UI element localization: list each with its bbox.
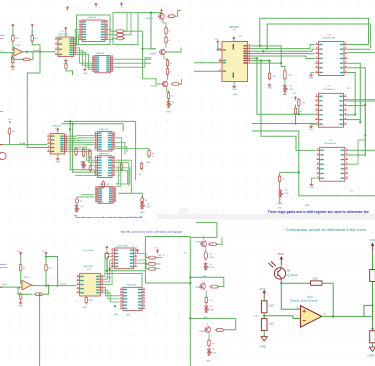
- capacitor C7: [75, 197, 78, 205]
- wire: [372, 251, 374, 270]
- svg-text:1k: 1k: [119, 175, 121, 177]
- svg-text:1M: 1M: [288, 75, 291, 77]
- wire: [31, 28, 33, 35]
- wire Q4 net: [251, 56, 315, 59]
- logic IC6 SN74HC32N: [319, 42, 345, 76]
- power VCC C4: [106, 246, 109, 250]
- resistor R8: [167, 15, 176, 18]
- LED D2: [283, 85, 288, 93]
- svg-text:74HC594: 74HC594: [229, 27, 239, 29]
- wire: [372, 343, 374, 347]
- svg-text:2N3904: 2N3904: [196, 242, 203, 244]
- wire stub to shift register DSB: [194, 62, 219, 64]
- svg-text:Opamp_Dual_Generic: Opamp_Dual_Generic: [290, 298, 318, 302]
- wire led res: [137, 254, 148, 258]
- resistor R26b: [140, 162, 142, 171]
- wire feed mid: [143, 48, 157, 50]
- wire output: [322, 315, 373, 317]
- svg-text:GND: GND: [267, 88, 272, 90]
- wire: [85, 296, 87, 298]
- svg-text:transistor: transistor: [0, 266, 8, 269]
- wire 1k column: [280, 171, 299, 173]
- resistor R43: [370, 331, 375, 343]
- resistor R23: [102, 180, 104, 189]
- junction: [150, 12, 152, 14]
- wire: [167, 74, 169, 80]
- wire box2 to column: [123, 31, 161, 84]
- junction: [189, 282, 191, 284]
- capacitor C6: [141, 196, 144, 204]
- LED D6: [205, 305, 210, 313]
- wire: [45, 256, 47, 263]
- junction: [145, 263, 147, 265]
- svg-text:in: in: [1, 50, 3, 52]
- svg-text:2N3904: 2N3904: [199, 331, 206, 333]
- resistor R30: [85, 296, 87, 305]
- wire feedback: [18, 288, 33, 294]
- svg-text:GND: GND: [305, 205, 310, 207]
- junction: [259, 45, 261, 47]
- svg-text:Three shift registers are used: Three shift registers are used to count …: [75, 216, 143, 219]
- wire: [163, 20, 166, 28]
- wire feedback loop: [12, 54, 22, 60]
- op-amp U2A: [22, 280, 32, 290]
- resistor R27 2k2: [45, 263, 47, 272]
- IC15 74AHC595: [123, 287, 142, 310]
- power VCC box3: [120, 2, 123, 6]
- svg-text:22k: 22k: [313, 277, 318, 281]
- svg-text:GND: GND: [278, 208, 283, 210]
- resistor R3 feedback: [21, 58, 31, 61]
- svg-text:74HC14N: 74HC14N: [58, 34, 68, 36]
- svg-text:LED: LED: [213, 352, 217, 354]
- junction red: [108, 267, 111, 270]
- long wire to lower section: [27, 52, 47, 148]
- svg-text:VCC: VCC: [238, 36, 243, 38]
- resistor R32 led: [147, 263, 157, 266]
- svg-text:IC1A: IC1A: [15, 44, 20, 47]
- resistor R38: [208, 338, 210, 347]
- wire: [298, 105, 300, 114]
- svg-text:1k: 1k: [209, 254, 211, 256]
- svg-text:74AHC595: 74AHC595: [126, 284, 137, 287]
- resistor R39 22k: [311, 281, 322, 285]
- kicad grid dots: [220, 221, 375, 363]
- junction: [45, 285, 47, 287]
- wire: [168, 98, 170, 101]
- wire: [66, 70, 73, 76]
- wire to R24: [116, 148, 150, 150]
- junction: [47, 285, 49, 287]
- svg-text:74HC595: 74HC595: [52, 125, 62, 127]
- svg-text:LED_R: LED_R: [158, 255, 165, 257]
- svg-text:GND: GND: [203, 276, 208, 278]
- wire: [263, 331, 265, 337]
- wire: [32, 41, 40, 52]
- resistor R7: [115, 37, 125, 40]
- IC4 logic bottom: [95, 56, 110, 73]
- junction: [266, 48, 268, 50]
- wire: [20, 256, 22, 263]
- svg-text:74AHC595: 74AHC595: [99, 128, 110, 131]
- power VCC IC1: [64, 27, 67, 31]
- IC3 logic top: [82, 20, 105, 41]
- wire frame A: [64, 121, 136, 180]
- wire bus to IC6: [252, 123, 315, 125]
- wire: [9, 135, 11, 145]
- capacitor C2: [89, 164, 92, 172]
- resistor R17 47k: [298, 98, 300, 107]
- power VCC box2: [95, 3, 98, 7]
- wire: [203, 237, 205, 240]
- wire: [205, 248, 207, 251]
- svg-text:S_out: S_out: [33, 49, 39, 52]
- svg-text:74AHC595: 74AHC595: [99, 152, 110, 155]
- IC10 74AHC595: [98, 132, 113, 152]
- svg-text:100n: 100n: [209, 257, 213, 259]
- transistor Q7: [200, 240, 206, 248]
- svg-text:GND: GND: [18, 305, 23, 307]
- wire frame ends: [117, 164, 119, 183]
- logic IC7 SN74HC05: [319, 93, 344, 127]
- svg-text:SN74HC08: SN74HC08: [325, 143, 337, 145]
- wire: [281, 63, 285, 70]
- wire 22k to right: [322, 283, 333, 316]
- resistor R4: [12, 56, 14, 65]
- wire: [372, 282, 374, 331]
- wire: [295, 114, 297, 124]
- wire IC7 nets: [347, 100, 375, 102]
- wire: [106, 260, 108, 271]
- wire main input: [0, 144, 47, 146]
- transistor Q3: [158, 13, 164, 21]
- svg-text:1k: 1k: [152, 156, 154, 158]
- shift register IC5 74HC594: [222, 42, 248, 82]
- svg-text:LED: LED: [285, 193, 289, 195]
- svg-text:T9: T9: [206, 324, 208, 326]
- wire: [263, 313, 265, 319]
- resistor R6: [115, 33, 125, 36]
- wire: [205, 290, 207, 297]
- transistor Q8: [199, 282, 205, 290]
- svg-text:Q?: Q?: [287, 269, 291, 273]
- wire: [279, 172, 281, 176]
- wire to buzzer col: [130, 184, 132, 193]
- svg-text:74AHC595: 74AHC595: [100, 183, 111, 186]
- svg-text:VCC: VCC: [347, 88, 352, 90]
- junction pullup: [371, 304, 373, 306]
- ground IC6: [309, 73, 313, 76]
- wire output: [32, 285, 77, 287]
- svg-text:VCC: VCC: [350, 191, 355, 193]
- ground D2: [283, 92, 287, 94]
- wire collector: [280, 265, 282, 268]
- junction: [217, 49, 219, 51]
- resistor R34: [208, 243, 218, 246]
- wire IC7 right exits: [344, 99, 375, 101]
- wire Q6 branch: [251, 60, 270, 62]
- svg-text:LED: LED: [289, 89, 293, 91]
- wire hook2: [178, 79, 181, 84]
- op-amp U1A: [14, 48, 23, 57]
- ground pullup: [369, 347, 375, 351]
- IC13 74HC14 yellow: [80, 273, 101, 296]
- wire: [76, 196, 78, 199]
- resistor R1: [12, 34, 14, 43]
- junction: [298, 171, 300, 173]
- svg-text:GND: GND: [233, 94, 238, 96]
- ground IC1: [64, 59, 68, 62]
- svg-text:1k: 1k: [145, 200, 147, 202]
- junction: [294, 122, 296, 124]
- wire D4 branch: [77, 196, 94, 198]
- transistor Q9: [204, 326, 210, 334]
- op-amp U1A kicad: [300, 306, 321, 328]
- wire box around IC3: [77, 15, 111, 45]
- wire bus IC1 to IC3: [75, 29, 79, 39]
- LED D1: [167, 100, 172, 108]
- junction: [189, 317, 191, 319]
- svg-text:74LVC1G08: 74LVC1G08: [117, 245, 129, 247]
- wire out to pullup: [364, 305, 373, 316]
- junction: [141, 48, 143, 50]
- wire frame E: [189, 237, 191, 366]
- wire R35 up: [218, 277, 224, 286]
- wire Q3 net: [251, 53, 315, 55]
- svg-text:74HC14N: 74HC14N: [83, 266, 93, 268]
- wire: [166, 88, 168, 93]
- resistor R14 47k: [268, 72, 270, 81]
- svg-text:2N3904: 2N3904: [195, 287, 202, 289]
- svg-text:74HC08: 74HC08: [96, 53, 105, 55]
- svg-text:IC1B: IC1B: [24, 277, 29, 279]
- wire: [165, 48, 181, 53]
- junction: [69, 120, 71, 122]
- resistor R9b: [165, 36, 167, 45]
- svg-text:GND: GND: [140, 212, 145, 214]
- svg-text:SN74HC05: SN74HC05: [324, 89, 336, 91]
- speaker SP1: [0, 153, 6, 160]
- svg-text:Comparator circuit to determin: Comparator circuit to determine if the c…: [286, 227, 367, 232]
- junction: [72, 123, 74, 125]
- LED D5: [204, 263, 209, 271]
- wire box2 inner: [123, 13, 127, 32]
- svg-text:GND: GND: [309, 78, 314, 80]
- junction: [280, 62, 282, 64]
- wire Q2 net: [251, 49, 315, 51]
- svg-text:1k9: 1k9: [269, 304, 274, 308]
- power VCC box1: [66, 6, 69, 10]
- resistor R35: [209, 285, 219, 288]
- resistor R13: [167, 91, 169, 100]
- wire: [208, 334, 210, 340]
- svg-text:SN74HC32N: SN74HC32N: [323, 38, 336, 40]
- wire input: [0, 52, 14, 54]
- junction photo: [280, 282, 282, 284]
- wire long pair B: [105, 274, 142, 287]
- resistor R37: [215, 329, 225, 332]
- wire: [165, 43, 167, 48]
- wire vcc branch: [46, 257, 58, 286]
- ground R29: [19, 301, 23, 304]
- IC11 74AHC595: [98, 156, 113, 178]
- svg-text:GND: GND: [232, 89, 237, 91]
- wire hook: [175, 10, 181, 16]
- svg-text:amp: amp: [0, 38, 4, 40]
- svg-text:GND: GND: [107, 277, 112, 279]
- ground R14: [268, 83, 272, 86]
- svg-text:D1: D1: [172, 102, 174, 104]
- power VCC IC9: [56, 128, 59, 132]
- wire: [21, 270, 22, 283]
- svg-text:GND: GND: [206, 361, 211, 363]
- svg-text:1.5V: 1.5V: [254, 314, 260, 318]
- window edge gray band: [157, 214, 375, 220]
- wire IC4 to T4 box: [114, 58, 152, 60]
- wire top rail: [138, 13, 161, 15]
- resistor R15 1M: [284, 69, 286, 81]
- wire Q1 riser: [267, 24, 370, 49]
- phototransistor Q10: [274, 268, 285, 279]
- svg-text:S_out: S_out: [20, 142, 26, 145]
- resistor R33 led: [147, 267, 157, 270]
- svg-text:GND: GND: [309, 129, 314, 131]
- resistor R40 1k9: [261, 301, 267, 313]
- svg-text:GND: GND: [83, 307, 88, 309]
- wire: [164, 56, 168, 60]
- svg-text:audio in: audio in: [0, 264, 7, 266]
- transistor Q4: [159, 48, 165, 56]
- wire bus IC1 to IC4: [77, 48, 93, 63]
- svg-text:Three logic gates and a shift: Three logic gates and a shift register a…: [268, 210, 369, 214]
- wire long pair A: [105, 270, 145, 272]
- svg-text:1k: 1k: [139, 174, 141, 176]
- power VCC IC9b: [69, 128, 72, 132]
- LED D3: [279, 190, 284, 198]
- resistor R26 1k: [20, 263, 22, 272]
- svg-text:VCC: VCC: [278, 252, 285, 256]
- junction: [256, 57, 258, 59]
- junction: [189, 276, 191, 278]
- wire Q5 net down: [251, 58, 315, 114]
- resistor R21: [89, 149, 91, 159]
- svg-text:1k9: 1k9: [269, 322, 274, 326]
- LED D7: [207, 348, 212, 356]
- resistor R20: [82, 148, 84, 158]
- wire bus2 to IC7: [252, 131, 375, 196]
- wire bus IC13 to IC15: [104, 287, 120, 295]
- wire: [165, 33, 167, 37]
- wire: [295, 104, 297, 108]
- wire: [12, 28, 14, 35]
- resistor R31 led: [147, 256, 157, 259]
- svg-text:VCC: VCC: [292, 93, 297, 95]
- wire bus IC9 to IC11: [68, 147, 94, 160]
- wire Q7 net: [251, 62, 281, 64]
- resistor R36: [205, 295, 207, 304]
- junction: [114, 305, 116, 307]
- wire frame B: [61, 124, 123, 132]
- wire input S_in: [0, 286, 22, 288]
- resistor R11: [166, 67, 168, 76]
- svg-text:LED: LED: [210, 309, 214, 311]
- wire: [279, 182, 281, 191]
- junction divider: [263, 315, 265, 317]
- wire: [167, 66, 169, 69]
- svg-text:VCC: VCC: [215, 39, 220, 41]
- wire: [42, 286, 48, 295]
- resistor R42 pullup: [370, 270, 375, 282]
- svg-text:GND: GND: [83, 73, 88, 75]
- junction: [364, 134, 366, 136]
- wire bus IC13 to IC14: [104, 254, 111, 277]
- svg-text:GND: GND: [10, 69, 15, 71]
- ground IC9: [56, 157, 60, 160]
- svg-text:GND: GND: [114, 314, 119, 316]
- junction: [371, 328, 373, 330]
- junction: [268, 60, 270, 62]
- junction: [364, 104, 366, 106]
- wire: [263, 298, 265, 301]
- resistor R10: [166, 59, 168, 68]
- svg-text:How LEDs connected to an inver: How LEDs connected to an inverter, a shi…: [121, 231, 182, 234]
- wire: [30, 52, 33, 60]
- LED D8: [140, 201, 145, 209]
- wire frame D: [73, 124, 97, 172]
- svg-text:2N3904: 2N3904: [151, 85, 158, 87]
- capacitor C1: [65, 62, 68, 70]
- junction: [262, 50, 264, 52]
- svg-text:audio: audio: [0, 35, 5, 37]
- svg-text:VCC: VCC: [8, 119, 13, 121]
- junction: [106, 270, 108, 272]
- wire bottom third: [75, 174, 97, 176]
- transistor Q5: [161, 80, 167, 88]
- wire frame G: [190, 276, 224, 278]
- svg-text:2N3904: 2N3904: [150, 53, 157, 55]
- wire box2 resistors: [113, 13, 138, 45]
- wire IC6 out nets: [347, 44, 368, 46]
- wire: [45, 270, 47, 285]
- ground IC8: [310, 183, 314, 186]
- resistor R41 1k9: [261, 319, 267, 331]
- junction: [39, 293, 41, 295]
- resistor R29: [20, 292, 22, 301]
- svg-text:VCC: VCC: [133, 247, 138, 249]
- svg-text:GND: GND: [56, 161, 61, 163]
- junction: [332, 315, 335, 318]
- wire bus IC9 to IC10: [68, 135, 94, 138]
- resistor R12: [171, 83, 180, 86]
- svg-text:VCC: VCC: [370, 238, 375, 242]
- power VCC P4: [45, 252, 48, 256]
- IC9 74HC595: [50, 134, 64, 154]
- junction: [45, 255, 47, 257]
- resistor R5: [115, 30, 125, 33]
- svg-text:GND: GND: [146, 162, 151, 164]
- wire frame F: [190, 223, 217, 238]
- ground shift register: [232, 85, 236, 88]
- resistor R16 47k: [294, 107, 296, 116]
- logic IC8 SN74HC08: [320, 147, 345, 181]
- IC12 74AHC595: [98, 187, 113, 204]
- resistor R22: [120, 162, 122, 171]
- wire: [108, 29, 116, 31]
- power VCC P2: [31, 24, 34, 28]
- ground: [11, 65, 15, 68]
- wire R34 up: [217, 237, 222, 244]
- ground IC7: [309, 125, 313, 128]
